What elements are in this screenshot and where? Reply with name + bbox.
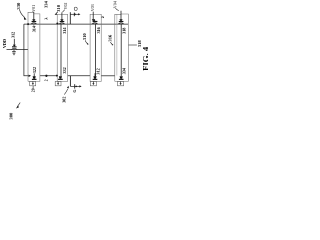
U3 sub-box inner mark	[92, 82, 94, 84]
U4 top contact bar	[119, 21, 124, 22]
top rail	[24, 23, 128, 25]
patent schematic FIG. 4 : standing-wave oscillator with four quarter-wave stub resonators	[0, 0, 148, 120]
svg-text:20: 20	[31, 88, 35, 92]
svg-text:V03: V03	[90, 4, 95, 11]
U3 top stem	[92, 12, 94, 20]
svg-text:316: 316	[96, 27, 101, 33]
top middle tap symbol between U2 and U3	[69, 12, 71, 24]
U2 rail hump bridge	[59, 23, 65, 24]
svg-text:312: 312	[11, 32, 16, 38]
bottom rail segment U3-U4	[101, 75, 115, 77]
U2 top stem	[61, 12, 63, 19]
svg-text:318: 318	[121, 28, 126, 34]
small circle above top tap	[74, 7, 77, 10]
stub U3 box	[90, 14, 101, 81]
svg-text:330: 330	[16, 2, 21, 10]
U3 top arrow flare	[92, 19, 95, 21]
bottom rail segment U1-U2	[40, 75, 57, 77]
svg-text:314: 314	[31, 25, 36, 32]
U3 rail hump bridge	[92, 23, 98, 24]
U1 top stem	[33, 12, 35, 20]
leader for 302	[64, 89, 68, 95]
U2 sub-box inner mark	[57, 82, 59, 84]
svg-text:2: 2	[45, 79, 49, 81]
svg-text:310: 310	[56, 4, 61, 12]
stub U1 box	[28, 12, 40, 81]
svg-text:302: 302	[61, 97, 66, 103]
wavy leader for U4 stem label V04	[115, 8, 118, 10]
U1 bottom contact bar	[32, 79, 37, 80]
VDD wire	[7, 49, 29, 51]
U1 bottom stem	[33, 73, 35, 76]
arrow for 300	[17, 103, 20, 107]
svg-text:λ: λ	[44, 17, 49, 20]
stub U4 box	[115, 14, 129, 81]
leader arrow for label 330	[20, 10, 25, 18]
VDD tap stem with arrow (ref 312)	[13, 39, 15, 45]
leader arrow for label 310 (U3 outside)	[85, 40, 87, 43]
svg-text:322: 322	[32, 67, 37, 73]
U3 bottom arrow flare	[93, 76, 96, 78]
leader arrow for label 316 (U4 outside)	[110, 42, 112, 44]
U1 bottom arrow flare	[33, 76, 36, 78]
U3 bottom stem	[94, 73, 96, 76]
U2 bottom arrow flare	[59, 76, 62, 78]
U1 pin below sub-box	[32, 86, 34, 89]
svg-text:316: 316	[108, 34, 113, 42]
U4 top arrow flare	[119, 19, 122, 21]
U2 center conductor	[60, 24, 62, 76]
bottom rail segment U2-U3	[68, 75, 91, 77]
svg-text:334: 334	[43, 0, 48, 8]
left bypass wire from top rail down to bottom	[24, 24, 29, 76]
arrowhead at right end of bypass wire	[29, 75, 31, 77]
U2 top arrow flare	[60, 19, 63, 21]
junction dot U2-left x top rail	[56, 23, 58, 25]
U1 rail hump bridge	[31, 23, 37, 24]
U3 sub-box below	[90, 81, 96, 85]
leader line for 318	[129, 44, 137, 46]
U1 tick below rail	[33, 24, 35, 26]
svg-text:V04: V04	[112, 1, 117, 8]
svg-text:312: 312	[95, 68, 100, 74]
junction dot on bottom rail between U1 and U2	[45, 75, 47, 77]
U4 top stem	[120, 11, 122, 20]
U4 bottom arrow flare	[120, 76, 123, 78]
U4 bottom contact bar	[119, 79, 124, 80]
U1 top contact bar	[32, 21, 37, 22]
svg-text:V02: V02	[63, 3, 68, 10]
svg-text:FIG. 4: FIG. 4	[141, 46, 149, 71]
junction dot U2-left x bottom rail	[56, 75, 58, 77]
U2 top contact bar	[60, 21, 65, 22]
U4 sub-box below	[118, 81, 124, 85]
junction dot U1-left x top rail	[27, 23, 29, 25]
U4 sub-box inner mark	[120, 82, 122, 84]
leader arrow for label 310 upper (U2 outside)	[56, 12, 58, 13]
U3 bottom contact bar	[93, 79, 98, 80]
svg-text:300: 300	[9, 112, 14, 120]
svg-text:G: G	[72, 89, 77, 92]
svg-text:V01: V01	[31, 5, 36, 12]
U1 sub-box inner mark	[32, 82, 34, 84]
svg-text:334: 334	[122, 67, 127, 74]
U3 center conductor	[95, 24, 97, 76]
U1 top arrow flare	[32, 19, 35, 21]
svg-text:332: 332	[62, 67, 67, 73]
U4 rail hump bridge	[118, 23, 124, 24]
U2 bottom contact bar	[58, 79, 63, 80]
U2 sub-box below	[55, 81, 61, 85]
U1 sub-box below	[30, 81, 36, 85]
svg-text:314: 314	[62, 27, 67, 34]
ground symbol under VDD wire	[13, 50, 15, 52]
svg-text:310: 310	[82, 33, 87, 41]
leader for U2 stem label V02	[62, 10, 64, 12]
stub U2 box	[57, 14, 67, 81]
U3 top contact bar	[93, 21, 98, 22]
U4 center conductor	[120, 24, 122, 76]
svg-text:VDD: VDD	[2, 39, 7, 48]
bottom middle tap symbol between U2 and U3	[69, 76, 71, 87]
svg-text:318: 318	[137, 40, 142, 48]
U4 faint inner line	[116, 14, 118, 75]
